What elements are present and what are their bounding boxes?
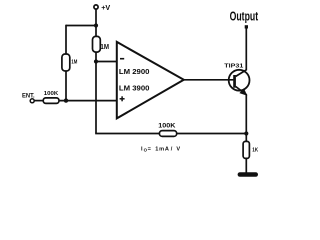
- svg-text:Output: Output: [230, 9, 259, 24]
- svg-text:1K: 1K: [252, 148, 258, 154]
- svg-text:LM 3900: LM 3900: [119, 83, 150, 92]
- svg-text:LM 2900: LM 2900: [119, 67, 150, 76]
- svg-text:ENT.: ENT.: [22, 93, 35, 100]
- svg-text:100K: 100K: [158, 122, 176, 129]
- svg-text:100K: 100K: [44, 91, 59, 97]
- svg-text:+V: +V: [101, 3, 110, 12]
- svg-text:1mA: 1mA: [155, 146, 170, 152]
- svg-text:TIP31: TIP31: [224, 63, 243, 69]
- svg-text:1M: 1M: [71, 60, 77, 66]
- svg-text:V: V: [176, 146, 180, 152]
- svg-text:1M: 1M: [100, 44, 109, 51]
